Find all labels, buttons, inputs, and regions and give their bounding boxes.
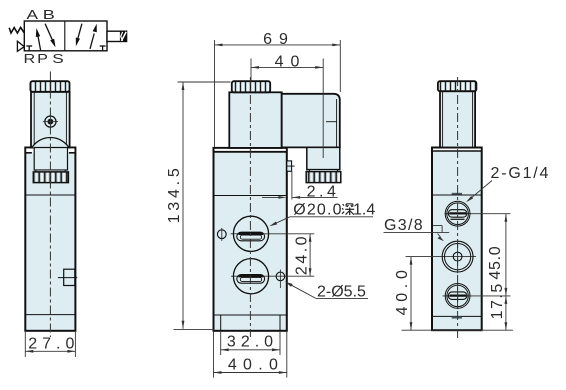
side body top band line	[214, 151, 287, 153]
port G1/4 bottom circle	[445, 284, 470, 310]
svg-text:G3/8: G3/8	[384, 217, 424, 234]
solenoid box	[107, 31, 127, 41]
dim 69 extension lines	[215, 40, 341, 147]
right body top band line	[432, 150, 482, 152]
flow arrow up-left (left box)	[36, 28, 41, 50]
connector inner tick	[326, 121, 337, 123]
dim 134.5 extension lines	[174, 82, 231, 329]
bottom joint line with notch (right)	[432, 316, 482, 318]
centerline right view	[457, 77, 459, 340]
main body (side)	[214, 148, 287, 331]
connector inner edge line	[336, 99, 338, 147]
svg-text:B: B	[43, 8, 55, 22]
svg-text:2-G1/4: 2-G1/4	[491, 165, 551, 182]
port G1/4 bottom circle crosshair / 17.5 ext	[443, 295, 511, 297]
centerline middle view	[249, 77, 251, 337]
base inner vertical lines	[221, 315, 280, 331]
dim 2.4	[262, 183, 339, 200]
connector lower lip	[310, 170, 338, 172]
mounting tab 2.4	[287, 161, 295, 200]
connector block	[282, 94, 340, 148]
armature dome arc	[32, 137, 69, 147]
solenoid base lip (front)	[36, 170, 65, 172]
T mark left	[26, 46, 32, 51]
note G3/8 with box leader	[384, 217, 450, 242]
dim 27.0	[25, 336, 79, 353]
port G1/4 top circle	[445, 201, 470, 226]
port G3/8 middle circle	[442, 241, 473, 273]
svg-text:69: 69	[263, 31, 295, 48]
port circle 1 crosshair	[231, 233, 315, 235]
valve box	[24, 21, 107, 51]
svg-text:A: A	[27, 8, 39, 22]
top joint line with notch (right)	[432, 193, 482, 195]
svg-text:45.0: 45.0	[487, 246, 504, 280]
dim 69	[215, 31, 341, 48]
base joint line (side)	[214, 314, 287, 316]
center screw circle	[43, 114, 58, 129]
dim 40	[251, 53, 323, 70]
note Ø20.0深1.4 with leader	[269, 202, 375, 227]
svg-text:40.0: 40.0	[394, 265, 411, 315]
front flange lip lines	[25, 152, 75, 154]
port G3/8 middle circle crosshair / 40.0 ext	[406, 256, 476, 258]
svg-text:27.0: 27.0	[28, 336, 79, 353]
knurled cap (side)	[232, 81, 270, 92]
svg-text:S: S	[52, 52, 64, 66]
knurled ring (side)	[306, 172, 341, 183]
dim 32.0 extension lines	[221, 331, 280, 355]
dim 27.0 extension lines	[25, 332, 75, 357]
port 1 slot	[237, 232, 265, 241]
pilot triangle	[17, 41, 24, 51]
flow arrow down-left (right box)	[76, 24, 82, 47]
flow arrow up-right (right box)	[90, 24, 97, 49]
coil inner edge lines	[34, 93, 66, 148]
dim 32.0	[221, 333, 280, 351]
solenoid base box (front)	[34, 148, 67, 171]
hanzi shen (depth)	[342, 204, 354, 215]
svg-text:P: P	[37, 52, 48, 66]
coil body (right)	[440, 91, 475, 147]
side body top white band	[215, 149, 286, 152]
knurled cap (right)	[438, 81, 477, 91]
spring W	[9, 27, 24, 33]
base joint line (front)	[25, 314, 75, 316]
svg-text:40.0: 40.0	[228, 357, 284, 374]
coil body (side)	[229, 92, 281, 148]
coil body (front)	[31, 92, 70, 148]
body joint line (front)	[25, 194, 75, 196]
bottom extension line (right view)	[402, 329, 514, 331]
knurled cap (front)	[30, 81, 69, 92]
svg-text:1.4: 1.4	[353, 202, 375, 219]
svg-text:24.0: 24.0	[293, 234, 310, 275]
svg-text:32.0: 32.0	[227, 333, 278, 350]
svg-text:2.4: 2.4	[307, 183, 340, 200]
note 2-Ø5.5 with leader	[285, 282, 368, 301]
connector lower block	[307, 147, 340, 169]
centerline left view	[49, 72, 51, 338]
body joint line (side)	[214, 195, 287, 197]
svg-text:17.5: 17.5	[489, 282, 506, 319]
note 2-G1/4 with leader	[466, 165, 550, 203]
port G1/4 top circle crosshair / 45.0 ext	[445, 213, 511, 215]
dim 134.5	[166, 82, 184, 329]
bolt hole top-left	[217, 228, 226, 241]
coil inner edge lines (right)	[443, 92, 473, 147]
bolt hole bottom-right	[276, 270, 285, 289]
dim 40.0 extension lines	[214, 331, 287, 378]
valve main body (front)	[25, 148, 75, 331]
port circle 1	[233, 216, 268, 251]
port 2 slot	[237, 275, 265, 284]
svg-text:R: R	[24, 52, 36, 66]
svg-text:Ø20.0: Ø20.0	[293, 202, 343, 219]
flow arrow down-right (left box)	[45, 24, 55, 48]
main body (right)	[432, 148, 482, 331]
svg-text:134.5: 134.5	[166, 164, 183, 223]
right body top white band	[433, 149, 481, 151]
dim 24.0	[293, 234, 311, 276]
svg-text:40: 40	[275, 53, 307, 70]
dim 40.0 bottom	[214, 357, 287, 374]
dim 40 extension lines	[251, 59, 323, 159]
dim 17.5	[489, 282, 507, 330]
manual override button	[58, 269, 77, 285]
port circle 2 crosshair	[231, 275, 314, 277]
port circle 2	[233, 259, 268, 294]
dim 40.0 (right view)	[394, 257, 412, 331]
dim 45.0	[487, 214, 507, 296]
T mark right	[100, 46, 106, 51]
knurled ring (front)	[33, 172, 68, 183]
valve box divider	[64, 21, 66, 51]
front body top white band	[26, 148, 74, 152]
